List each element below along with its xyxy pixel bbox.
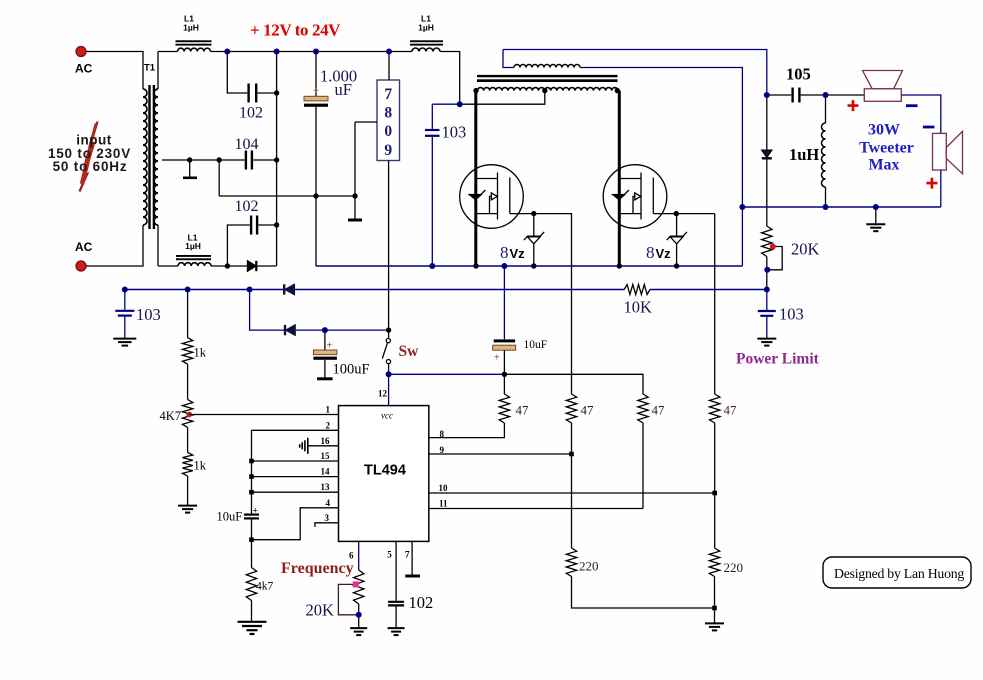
pin 5 stub and capacitor 102 <box>388 541 433 627</box>
svg-text:Sw: Sw <box>399 343 420 360</box>
wire top rail left <box>158 51 178 53</box>
wire control bus <box>125 289 767 291</box>
pin 7 stub and ground <box>405 541 420 576</box>
svg-text:+ 12V to 24V: + 12V to 24V <box>250 21 341 40</box>
diode D1 rectifier <box>248 261 257 271</box>
capacitor 104 <box>235 136 259 170</box>
svg-text:10uF: 10uF <box>524 339 548 351</box>
svg-text:15: 15 <box>321 451 331 461</box>
svg-text:50 to 60Hz: 50 to 60Hz <box>53 159 128 174</box>
ground 4k7 <box>238 622 267 634</box>
resistor 1k lower <box>182 427 206 505</box>
svg-text:1k: 1k <box>194 459 207 473</box>
transformer T2 feedback winding <box>514 65 580 68</box>
junction dots navy <box>122 49 879 618</box>
svg-text:103: 103 <box>136 305 161 324</box>
svg-text:4K7: 4K7 <box>160 409 182 423</box>
label input voltage <box>48 133 131 175</box>
svg-text:5: 5 <box>387 550 392 560</box>
svg-text:11: 11 <box>439 499 448 509</box>
svg-text:102: 102 <box>235 198 259 215</box>
regulator 7809 <box>355 52 400 331</box>
svg-text:1uH: 1uH <box>789 145 819 164</box>
svg-text:20K: 20K <box>306 601 335 620</box>
svg-text:1k: 1k <box>194 346 207 360</box>
svg-text:103: 103 <box>442 123 467 142</box>
transformer T1 <box>143 63 158 230</box>
svg-text:9: 9 <box>384 142 392 159</box>
svg-text:47: 47 <box>516 403 530 418</box>
capacitor 103 left <box>115 290 160 339</box>
wire feedback bus left <box>251 430 253 513</box>
svg-text:102: 102 <box>409 593 434 612</box>
svg-text:7: 7 <box>405 550 410 560</box>
svg-text:20K: 20K <box>791 240 820 259</box>
potentiometer 20K frequency <box>306 570 364 628</box>
svg-text:47: 47 <box>652 403 666 418</box>
ground frequency pot <box>350 628 367 635</box>
svg-text:Max: Max <box>868 157 899 174</box>
wire Q2 gate <box>653 213 714 215</box>
label polarity marks <box>848 100 938 189</box>
svg-text:10: 10 <box>439 483 449 493</box>
svg-text:Tweeter: Tweeter <box>859 140 914 157</box>
wire Sw node to pin12 <box>388 374 390 405</box>
wire pin 3 stub <box>315 523 339 527</box>
resistor 4k7 lower <box>246 568 273 622</box>
svg-text:105: 105 <box>786 65 811 84</box>
wire gnd row y196 <box>219 195 355 197</box>
svg-text:8: 8 <box>384 105 392 122</box>
wire center tap row <box>162 159 245 161</box>
svg-text:7: 7 <box>384 86 392 103</box>
svg-text:12: 12 <box>378 389 388 399</box>
wire gate drive row right <box>504 374 643 394</box>
diode D3 on bus <box>285 284 294 294</box>
wire branch to row2 <box>250 290 285 331</box>
zener 8Vz right <box>646 214 687 266</box>
svg-text:104: 104 <box>235 136 259 153</box>
wire speaker bottom <box>940 170 942 207</box>
svg-text:10uF: 10uF <box>217 510 243 524</box>
svg-text:8Vz: 8Vz <box>500 243 525 262</box>
svg-text:6: 6 <box>349 551 354 561</box>
diode D4 <box>286 325 295 335</box>
ground 102 <box>388 628 405 635</box>
junction dots black <box>187 88 679 377</box>
svg-text:uF: uF <box>335 80 352 99</box>
junction squares <box>249 452 717 611</box>
capacitor 102 lower <box>235 198 259 235</box>
resistor 220 left <box>566 548 714 608</box>
capacitor 105 <box>786 65 811 103</box>
svg-text:1µH: 1µH <box>185 241 201 251</box>
ground 7809 <box>348 196 362 220</box>
wire pin 2 <box>252 429 339 431</box>
svg-text:220: 220 <box>579 559 599 574</box>
svg-text:AC: AC <box>75 62 93 76</box>
svg-text:1: 1 <box>326 405 331 415</box>
capacitor 102 top <box>239 84 263 122</box>
wire T1 secondary top to rail <box>157 52 159 90</box>
svg-text:30W: 30W <box>868 122 900 139</box>
resistor 47 second <box>566 214 594 548</box>
svg-text:16: 16 <box>321 436 331 446</box>
wire 102a right <box>257 92 276 94</box>
resistor 220 right <box>709 548 743 623</box>
resistor 10K <box>624 285 653 317</box>
svg-text:100uF: 100uF <box>333 362 370 378</box>
svg-text:14: 14 <box>321 467 331 477</box>
potentiometer 20K power <box>762 226 820 290</box>
svg-text:47: 47 <box>581 403 595 418</box>
wire pin 15 <box>252 460 339 462</box>
ground 1k chain <box>178 506 197 513</box>
terminal AC bottom <box>75 240 93 271</box>
wire output return rail <box>742 206 940 208</box>
wire feedback right drop <box>580 68 742 267</box>
transformer T2 core <box>477 75 618 82</box>
inductor L1 second <box>410 14 443 52</box>
svg-text:2: 2 <box>326 420 331 430</box>
wire rail to drop <box>440 52 460 105</box>
capacitor 1.000uF <box>304 52 357 267</box>
svg-text:47: 47 <box>724 403 738 418</box>
wire AC top to T1 <box>86 52 143 90</box>
zener 8Vz left <box>500 214 544 266</box>
wire pin 9 <box>429 453 572 455</box>
ground 220 <box>705 623 724 630</box>
capacitor 10uF right <box>493 266 547 374</box>
svg-text:1µH: 1µH <box>183 23 199 33</box>
terminal AC top <box>75 47 93 76</box>
capacitor 10uF left <box>217 507 260 568</box>
wire 9V node <box>432 103 459 105</box>
svg-text:vcc: vcc <box>381 411 393 421</box>
svg-text:TL494: TL494 <box>364 463 406 479</box>
wire Sw node right <box>389 373 505 375</box>
ground 103 left <box>113 339 136 346</box>
lightning bolt <box>80 122 98 192</box>
wire pin 4 <box>252 508 339 540</box>
capacitor 100uF <box>313 330 369 379</box>
svg-text:Designed by Lan Huong: Designed by Lan Huong <box>834 566 964 581</box>
inductor L1 top-left <box>176 14 212 52</box>
speaker driver <box>933 131 963 174</box>
svg-text:T1: T1 <box>144 63 156 74</box>
svg-text:102: 102 <box>239 105 263 122</box>
capacitor 103 power limit <box>758 290 804 339</box>
wire 104 right <box>253 159 277 161</box>
label 30W Tweeter Max <box>859 122 914 174</box>
svg-text:220: 220 <box>724 560 744 575</box>
designed by box <box>823 557 971 588</box>
svg-text:13: 13 <box>321 482 331 492</box>
wire 105 to horn <box>801 94 865 96</box>
resistor 47 third <box>638 394 665 509</box>
wire diode to node <box>257 265 276 267</box>
svg-text:10K: 10K <box>624 298 653 317</box>
ground speaker <box>866 207 885 231</box>
wire pin 14 <box>252 476 339 478</box>
svg-text:Power Limit: Power Limit <box>736 351 820 368</box>
svg-text:+: + <box>327 341 333 352</box>
diode D2 <box>762 95 772 226</box>
potentiometer 4K7 <box>160 364 193 427</box>
wire pin 10 <box>429 492 715 494</box>
svg-text:4: 4 <box>326 498 331 508</box>
transformer T2 primary <box>478 88 618 91</box>
resistor 47 first <box>429 374 529 437</box>
wire top rail mid <box>211 51 413 53</box>
wire row2 to Sw <box>296 329 389 331</box>
resistor 47 fourth <box>710 214 738 548</box>
ground power limit <box>757 339 776 346</box>
switch Sw <box>382 330 419 374</box>
wire pin 1 <box>189 414 338 416</box>
pin 6 stub <box>358 541 360 570</box>
svg-text:8Vz: 8Vz <box>646 243 671 262</box>
wire 102b right <box>258 224 276 226</box>
wire source rail <box>316 265 743 267</box>
svg-text:3: 3 <box>325 513 330 523</box>
wire feedback left <box>503 50 514 68</box>
svg-text:4k7: 4k7 <box>256 581 274 593</box>
svg-text:1µH: 1µH <box>418 23 434 33</box>
wire horn to speaker <box>901 95 941 133</box>
wire feedback top run <box>503 50 767 96</box>
svg-text:0: 0 <box>384 123 392 140</box>
wire bottom row left <box>158 265 178 267</box>
wire 102b left <box>227 225 249 266</box>
IC U1 TL494 <box>339 406 429 542</box>
resistor 1k upper <box>182 290 206 365</box>
pin 16 stub and earth <box>300 438 339 454</box>
wire tap drop <box>218 160 220 196</box>
wire bottom row mid <box>211 265 248 267</box>
svg-text:+: + <box>253 507 258 517</box>
pin number labels <box>321 405 331 523</box>
wire 102a left <box>227 52 247 94</box>
node column x276 <box>276 52 278 267</box>
wire pin 11 <box>429 508 643 510</box>
svg-text:AC: AC <box>75 240 93 254</box>
speaker horn tweeter <box>863 71 903 102</box>
wire Q1 gate <box>510 213 572 215</box>
svg-text:103: 103 <box>779 305 804 324</box>
transistor Q2 mosfet <box>603 91 667 266</box>
capacitor 103 near 7809 <box>425 104 466 266</box>
wire T1 secondary bottom <box>157 225 159 266</box>
wire node to center tap <box>460 91 545 105</box>
inductor L1 bottom <box>176 233 211 267</box>
svg-text:+: + <box>313 86 319 97</box>
transistor Q1 mosfet <box>460 91 524 266</box>
svg-text:Frequency: Frequency <box>281 560 354 577</box>
inductor 1uH output <box>789 95 826 207</box>
ground tap earth <box>183 160 197 178</box>
wire 105 row left <box>767 94 791 96</box>
svg-text:+: + <box>494 353 500 364</box>
wire pin 13 <box>252 491 339 493</box>
wire AC bottom to T1 <box>86 225 143 266</box>
